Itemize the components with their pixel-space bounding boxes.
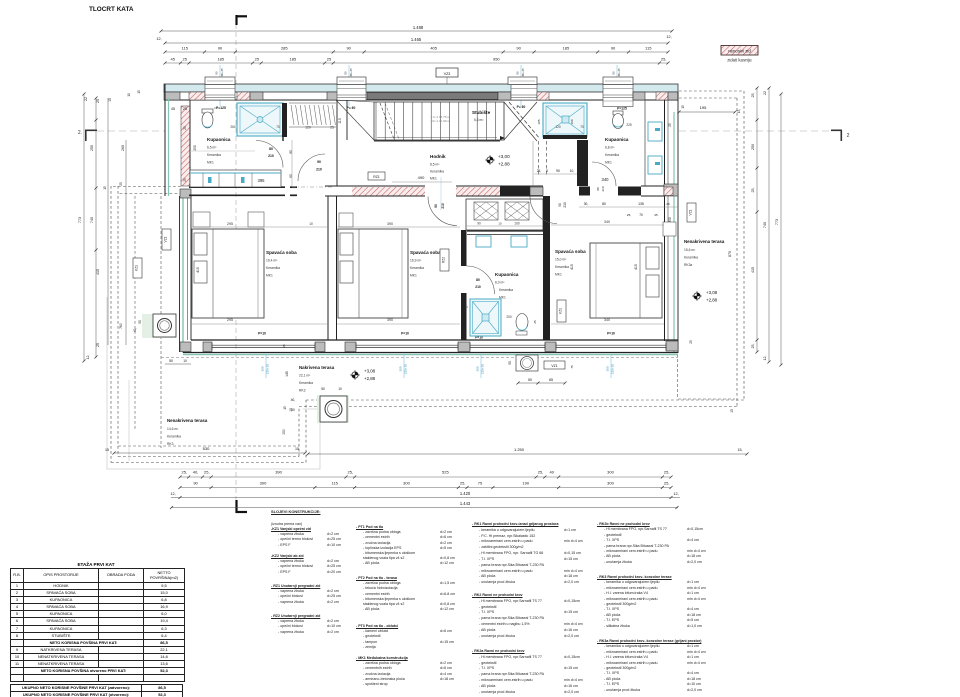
svg-text:115: 115 (338, 118, 342, 124)
section line 1 vertical (235, 24, 237, 501)
svg-text:300: 300 (260, 366, 264, 371)
svg-text:300: 300 (260, 481, 267, 486)
svg-text:260: 260 (230, 125, 236, 129)
svg-text:15: 15 (283, 406, 287, 410)
svg-text:340: 340 (604, 318, 610, 322)
bathroom 2 inner wall (644, 100, 646, 186)
svg-text:25: 25 (183, 178, 187, 182)
svg-text:25,: 25, (348, 470, 354, 475)
svg-text:70: 70 (464, 305, 468, 309)
svg-text:Kupaonica: Kupaonica (605, 137, 629, 142)
svg-text:415: 415 (570, 264, 574, 270)
svg-text:25,: 25, (627, 213, 631, 217)
svg-text:50: 50 (528, 378, 532, 382)
svg-text:15,: 15, (738, 448, 743, 452)
svg-text:390: 390 (387, 318, 393, 322)
svg-text:1.443: 1.443 (460, 501, 471, 506)
svg-text:Nenakrivena terasa: Nenakrivena terasa (167, 418, 208, 423)
svg-text:90: 90 (558, 203, 562, 207)
svg-text:100: 100 (514, 222, 520, 226)
svg-text:Nenakrivena terasa: Nenakrivena terasa (684, 239, 725, 244)
KZ1 box far left vertical (133, 258, 142, 278)
svg-text:MK1: MK1 (430, 177, 437, 181)
svg-text:25,: 25, (460, 481, 466, 486)
svg-text:+3,08: +3,08 (706, 290, 718, 295)
svg-text:225: 225 (626, 123, 632, 127)
VZ1 box horizontal (544, 361, 565, 369)
svg-text:Keramika: Keramika (555, 265, 569, 269)
svg-text:MK1: MK1 (555, 273, 562, 277)
svg-text:25,: 25, (751, 344, 755, 349)
svg-text:P= 60: P= 60 (517, 105, 526, 109)
svg-text:15: 15 (730, 409, 734, 413)
svg-text:P=10: P=10 (607, 332, 615, 336)
svg-text:50: 50 (138, 320, 142, 324)
north exterior wall band (164, 84, 678, 92)
svg-text:90: 90 (346, 46, 351, 51)
svg-text:340: 340 (602, 177, 610, 182)
svg-text:530: 530 (203, 446, 210, 451)
svg-text:75: 75 (478, 481, 483, 486)
bottom row B (180, 487, 671, 489)
svg-text:10: 10 (183, 359, 187, 363)
svg-text:+2,88: +2,88 (498, 162, 510, 167)
bathroom 1 toilet (202, 109, 213, 113)
svg-text:25: 25 (255, 57, 260, 62)
svg-text:Nakrivena terasa: Nakrivena terasa (299, 365, 335, 370)
window box w3 (508, 77, 537, 85)
svg-text:90: 90 (515, 71, 519, 75)
svg-text:90: 90 (611, 71, 615, 75)
bottom row D 1.443 (171, 507, 678, 509)
svg-text:295: 295 (227, 318, 233, 322)
svg-text:15: 15 (103, 186, 107, 190)
column left (142, 314, 176, 338)
svg-text:2.: 2. (78, 130, 82, 136)
svg-text:+3,00: +3,00 (498, 154, 510, 159)
svg-text:P= 60: P= 60 (347, 106, 356, 110)
svg-text:25,: 25, (664, 470, 670, 475)
svg-text:415: 415 (96, 269, 100, 275)
svg-text:740: 740 (90, 217, 94, 223)
svg-text:105: 105 (537, 119, 541, 124)
svg-text:90: 90 (218, 46, 223, 51)
svg-text:135: 135 (638, 202, 644, 206)
washer near south wall (516, 355, 538, 371)
svg-text:90: 90 (434, 204, 438, 208)
svg-text:MK1: MK1 (605, 161, 612, 165)
svg-text:145: 145 (285, 371, 289, 377)
section mark 2 right (831, 129, 842, 131)
svg-text:90: 90 (193, 481, 198, 486)
svg-text:45: 45 (170, 57, 175, 62)
bedroom 2 bed (338, 229, 408, 318)
dim 1.250 line (308, 453, 747, 455)
svg-text:773: 773 (775, 219, 779, 225)
svg-text:2: 2 (847, 133, 850, 139)
bathroom 2 door (592, 162, 616, 186)
north wall hatch piece 2 (237, 92, 250, 100)
top dimension row 45/25/185/25/185/25/950/25 (165, 62, 668, 64)
svg-text:90: 90 (317, 160, 321, 164)
svg-text:25,: 25, (538, 470, 544, 475)
svg-text:P=125: P=125 (617, 107, 627, 111)
bathroom 1 wall stub (282, 103, 287, 137)
svg-text:300: 300 (403, 481, 410, 486)
svg-text:415: 415 (196, 267, 200, 273)
svg-text:14,6 m²: 14,6 m² (167, 427, 179, 431)
svg-text:250: 250 (751, 144, 755, 150)
svg-text:210: 210 (601, 186, 605, 191)
svg-text:RK3: RK3 (299, 389, 306, 393)
svg-text:VZ1: VZ1 (164, 236, 168, 242)
svg-text:MK1: MK1 (410, 274, 417, 278)
north wall block 3 (327, 92, 339, 100)
svg-text:Keramika: Keramika (207, 153, 221, 157)
svg-text:80: 80 (289, 150, 293, 154)
blue sill dims below windows (265, 354, 267, 378)
svg-text:RK3a: RK3a (684, 263, 692, 267)
svg-text:25,: 25, (537, 169, 542, 173)
svg-text:25: 25 (654, 213, 658, 217)
hodnik door to bed1 (298, 154, 325, 181)
svg-text:40: 40 (549, 470, 554, 475)
svg-text:210: 210 (441, 203, 445, 209)
svg-text:P=10: P=10 (258, 332, 266, 336)
svg-text:80: 80 (596, 187, 600, 191)
level symbol right terrace (694, 293, 700, 299)
svg-text:25: 25 (666, 202, 670, 206)
bedroom 1 bed (192, 229, 264, 318)
svg-text:115: 115 (332, 481, 339, 486)
bathroom 1 shower (237, 103, 283, 136)
svg-text:Kupaonica: Kupaonica (207, 137, 231, 142)
svg-text:25,: 25, (664, 481, 670, 486)
bathroom 2 shower (543, 103, 587, 137)
svg-text:19,4 m²: 19,4 m² (266, 259, 278, 263)
RZ2 box (440, 249, 449, 271)
svg-text:90: 90 (343, 71, 347, 75)
svg-text:180+25: 180+25 (220, 68, 224, 78)
KZ2 box (343, 230, 352, 252)
section mark 1 top (235, 15, 237, 25)
svg-text:50: 50 (169, 359, 173, 363)
svg-text:45: 45 (171, 107, 175, 111)
svg-text:50: 50 (321, 387, 325, 391)
svg-text:1.488: 1.488 (413, 25, 424, 30)
terrace edge teal line (183, 354, 678, 356)
window box w4 (603, 77, 633, 85)
svg-text:Keramika: Keramika (430, 170, 444, 174)
window axis lines (219, 65, 221, 106)
section mark 1 bottom (235, 500, 237, 513)
bathroom 1 door (256, 141, 283, 168)
svg-text:415: 415 (751, 267, 755, 273)
middle wall hatch 1 (352, 187, 425, 196)
svg-text:RK3: RK3 (167, 442, 174, 446)
svg-text:15: 15 (105, 448, 109, 452)
svg-text:100: 100 (570, 119, 574, 124)
svg-text:+2,88: +2,88 (706, 298, 718, 303)
future wall dashed lines (538, 141, 540, 176)
svg-text:MK1: MK1 (266, 274, 273, 278)
svg-text:22,1 m²: 22,1 m² (299, 374, 311, 378)
svg-text:90: 90 (214, 71, 218, 75)
bathroom 2 corridor wall (577, 140, 588, 186)
svg-text:25,: 25, (204, 470, 210, 475)
top dimension row 115/90/285/90/405/90/185/90/115 (165, 51, 668, 53)
svg-text:773: 773 (78, 217, 82, 223)
svg-text:Keramika: Keramika (167, 435, 181, 439)
svg-text:25: 25 (668, 123, 672, 127)
svg-text:90: 90 (611, 46, 616, 51)
svg-text:P=10: P=10 (401, 332, 409, 336)
svg-text:12,: 12, (673, 492, 678, 496)
svg-text:210: 210 (475, 285, 481, 289)
stairs walk line (374, 140, 500, 142)
svg-text:60: 60 (289, 174, 293, 178)
section line 2 horizontal (97, 130, 165, 132)
wide stair window dark band (367, 93, 498, 100)
svg-text:300: 300 (607, 470, 614, 475)
svg-text:25: 25 (96, 99, 100, 103)
svg-text:+2,88: +2,88 (364, 376, 376, 381)
svg-text:740: 740 (763, 222, 767, 228)
VZ1 box right side vertical (687, 203, 696, 222)
svg-text:130: 130 (461, 317, 465, 322)
svg-text:25,: 25, (751, 188, 755, 193)
svg-text:Spavaća soba: Spavaća soba (266, 250, 297, 255)
KZ1 box (557, 300, 566, 322)
window W3 opening (511, 85, 537, 101)
svg-text:6,4 m²: 6,4 m² (474, 118, 484, 122)
svg-text:15: 15 (137, 90, 141, 94)
svg-text:250: 250 (193, 145, 197, 151)
svg-text:185: 185 (563, 46, 570, 51)
svg-text:760: 760 (119, 323, 123, 329)
svg-text:10: 10 (309, 222, 313, 226)
top dimension 1.488 (161, 30, 672, 32)
svg-text:395: 395 (258, 178, 266, 183)
inner single dashed lines (160, 196, 162, 448)
svg-text:12,: 12, (763, 356, 767, 361)
level symbol terrace (352, 372, 358, 378)
svg-text:VZ3: VZ3 (444, 72, 451, 76)
roof overhang dashed outline (110, 186, 112, 463)
svg-text:25,: 25, (751, 93, 755, 98)
svg-text:40,: 40, (291, 398, 296, 402)
north wall corner block (164, 92, 180, 100)
svg-text:70: 70 (639, 213, 643, 217)
svg-text:415: 415 (634, 264, 638, 270)
staircase (374, 102, 504, 140)
svg-text:90: 90 (477, 222, 481, 226)
svg-text:15: 15 (295, 447, 299, 451)
svg-text:525: 525 (442, 470, 449, 475)
svg-text:RZ2: RZ2 (442, 257, 446, 263)
svg-text:300: 300 (607, 481, 614, 486)
svg-text:65: 65 (549, 378, 553, 382)
svg-text:8,5 m²: 8,5 m² (430, 163, 440, 167)
svg-text:225+25: 225+25 (266, 364, 270, 374)
svg-text:185: 185 (290, 57, 297, 62)
north wall block 5 (633, 92, 645, 100)
column bottom (317, 395, 349, 423)
middle wall hatch 3 (664, 187, 673, 196)
svg-text:490: 490 (418, 175, 425, 180)
window W4 opening (603, 85, 633, 107)
svg-text:1.250: 1.250 (514, 447, 525, 452)
bathroom 3 toilet (516, 314, 528, 331)
svg-text:Keramika: Keramika (605, 153, 619, 157)
bathroom 1 vanity (190, 170, 281, 187)
svg-text:12,: 12, (170, 492, 175, 496)
bathroom 3 shower (470, 299, 501, 336)
svg-text:22: 22 (763, 91, 767, 95)
svg-text:70: 70 (276, 125, 280, 129)
bathroom 2 basins (648, 122, 662, 141)
svg-text:Spavaća soba: Spavaća soba (555, 249, 586, 254)
level symbol hodnik (487, 157, 493, 163)
svg-text:VZ1: VZ1 (551, 364, 557, 368)
svg-text:340: 340 (604, 220, 610, 224)
bedroom 1 nightstand (193, 212, 210, 227)
svg-text:nenosivi zid: nenosivi zid (728, 49, 751, 54)
bathroom 3 basins (476, 236, 491, 247)
svg-text:12,: 12, (86, 355, 90, 360)
svg-text:120: 120 (305, 126, 311, 130)
svg-text:Spavaća soba: Spavaća soba (410, 250, 441, 255)
svg-text:185: 185 (217, 57, 224, 62)
svg-text:22: 22 (84, 97, 88, 101)
svg-text:1.465: 1.465 (411, 37, 422, 42)
bathroom 3 closet niche (466, 199, 543, 230)
svg-text:25: 25 (533, 320, 537, 324)
svg-text:15,: 15, (737, 109, 741, 114)
svg-text:180+25: 180+25 (349, 68, 353, 78)
svg-text:Kupaonica: Kupaonica (495, 272, 519, 277)
svg-text:25: 25 (282, 344, 286, 348)
svg-text:195: 195 (700, 105, 707, 110)
bathroom 2 wall below shower (543, 135, 587, 139)
window W1 opening (205, 85, 235, 101)
bathroom 3 door (467, 266, 495, 294)
interior wall bed1/bed2 (327, 196, 329, 340)
north wall hatch piece 4 (656, 92, 668, 100)
north wall hatch piece 3 (537, 92, 549, 100)
svg-text:Keramika: Keramika (410, 266, 424, 270)
top dimension 1.465 (165, 42, 668, 44)
svg-text:Hodnik: Hodnik (430, 154, 446, 159)
sloped hatch left of stairs (289, 102, 336, 104)
svg-text:15,0 m²: 15,0 m² (555, 258, 567, 262)
svg-text:225+25: 225+25 (404, 364, 408, 374)
svg-text:180+25: 180+25 (521, 68, 525, 78)
svg-text:50: 50 (508, 361, 512, 365)
svg-text:80: 80 (269, 147, 273, 151)
south exterior wall (191, 339, 678, 341)
dim 530 line (114, 452, 305, 454)
svg-text:80: 80 (602, 202, 606, 206)
svg-text:150: 150 (282, 429, 286, 435)
svg-text:295: 295 (227, 222, 233, 226)
section mark 2 left (85, 129, 97, 131)
window box w1 (205, 77, 235, 85)
nenosivi zid note (721, 46, 758, 56)
south wall blocks (203, 342, 212, 352)
svg-text:RZ1: RZ1 (373, 175, 380, 179)
svg-text:10: 10 (127, 93, 131, 97)
svg-text:75: 75 (570, 365, 574, 369)
svg-text:10,: 10, (570, 169, 575, 173)
svg-text:115: 115 (645, 46, 652, 51)
svg-text:300: 300 (475, 366, 479, 371)
svg-text:10: 10 (498, 222, 502, 226)
svg-text:225+25: 225+25 (481, 364, 485, 374)
svg-text:30,: 30, (584, 202, 589, 206)
svg-text:zidati kasnije: zidati kasnije (727, 58, 752, 63)
VZ3 box (436, 68, 458, 77)
svg-text:250: 250 (90, 145, 94, 151)
svg-text:25,: 25, (182, 470, 188, 475)
window box w2 (337, 77, 366, 85)
svg-text:390: 390 (387, 222, 393, 226)
window W2 opening (337, 85, 366, 101)
svg-text:180+25: 180+25 (617, 68, 621, 78)
middle wall (189, 186, 285, 188)
svg-text:25: 25 (183, 126, 187, 130)
svg-text:50: 50 (291, 408, 295, 412)
svg-text:5: 5 (546, 169, 548, 173)
svg-text:190: 190 (522, 481, 529, 486)
svg-text:390: 390 (275, 470, 282, 475)
svg-text:15,6 m²: 15,6 m² (684, 248, 696, 252)
svg-text:210: 210 (316, 168, 322, 172)
RZ1 box (368, 172, 385, 180)
svg-text:25: 25 (689, 340, 693, 344)
bathroom 3 walls (461, 230, 467, 266)
svg-text:15: 15 (108, 98, 112, 102)
svg-text:210: 210 (268, 154, 274, 158)
svg-text:KZ1: KZ1 (559, 308, 563, 314)
svg-text:6,5 m²: 6,5 m² (207, 146, 217, 150)
svg-text:Stubište: Stubište (472, 110, 491, 115)
svg-text:25: 25 (183, 57, 188, 62)
west corner block (180, 189, 191, 198)
svg-text:90: 90 (556, 169, 560, 173)
svg-text:90: 90 (516, 46, 521, 51)
svg-text:12,: 12, (156, 37, 161, 41)
north wall block 2 (250, 92, 263, 100)
west exterior wall upper (164, 84, 166, 196)
svg-text:Keramika: Keramika (499, 288, 513, 292)
middle wall hatch 2 (456, 187, 500, 196)
VZ1 box left side vertical (162, 229, 171, 250)
svg-text:16,9 m²: 16,9 m² (410, 259, 422, 263)
svg-text:25: 25 (330, 126, 334, 130)
svg-text:225+25: 225+25 (611, 364, 615, 374)
svg-text:200: 200 (506, 315, 512, 319)
svg-text:40,: 40, (193, 470, 199, 475)
middle wall right segments (530, 187, 543, 196)
svg-text:25: 25 (119, 182, 123, 186)
svg-text:6,0 m²: 6,0 m² (495, 281, 505, 285)
bottom row A (180, 476, 671, 478)
level mark hodnik (0, 0, 1, 1)
svg-text:25: 25 (96, 343, 100, 347)
svg-text:12,: 12, (666, 35, 671, 39)
svg-text:TLOCRT KATA: TLOCRT KATA (89, 6, 134, 13)
